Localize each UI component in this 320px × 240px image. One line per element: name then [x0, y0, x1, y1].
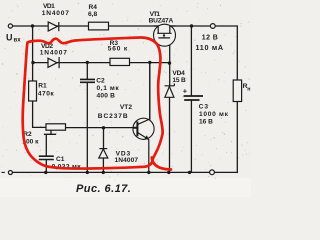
capacitor C3 polarized: [184, 96, 203, 100]
wire VT2 collector column: [149, 63, 151, 120]
wire gate lead and VD4 column: [169, 38, 171, 173]
svg-text:вх: вх: [14, 38, 22, 44]
diode VD2: [48, 57, 59, 68]
resistor R1: [29, 81, 37, 101]
node gate/VD4 junction: [168, 61, 171, 64]
svg-text:470к: 470к: [38, 90, 55, 97]
wire top rail from MOSFET to right corner, down to Rn: [170, 26, 238, 80]
svg-text:C3: C3: [199, 103, 209, 110]
wire second rail VD2/R3 line: [33, 62, 170, 64]
label VT1 BUZ47A: [149, 11, 174, 25]
label 12 V 110 mA: [196, 35, 224, 53]
svg-text:Рис. 6.17.: Рис. 6.17.: [76, 183, 131, 195]
ground terminal bottom right: [210, 170, 215, 175]
wire base line R2 to VT2: [66, 127, 134, 129]
wire C3 column: [190, 26, 192, 172]
svg-text:1N4007: 1N4007: [42, 10, 70, 17]
node emitter/ground: [147, 171, 150, 174]
svg-text:1N4007: 1N4007: [40, 50, 68, 57]
node base/VD3 junction: [102, 126, 105, 129]
label C1 0,033mk: [52, 156, 82, 170]
svg-text:400 В: 400 В: [97, 93, 116, 100]
svg-text:1N4007: 1N4007: [115, 157, 139, 164]
diode VD1: [48, 22, 59, 31]
load resistor Rn: [233, 80, 241, 102]
label VD2: [40, 43, 68, 56]
resistor R3: [110, 58, 130, 65]
label VD3: [115, 150, 139, 164]
wire C2 column: [86, 63, 88, 173]
svg-text:BC237B: BC237B: [98, 113, 129, 120]
output terminal +12V: [210, 24, 215, 29]
wire load lead Rn bottom to bottom rail: [236, 102, 238, 173]
node VD3/ground: [102, 171, 105, 174]
label Uvx: [6, 32, 21, 43]
svg-text:0,1 мк: 0,1 мк: [97, 85, 120, 92]
svg-text:н: н: [247, 86, 250, 92]
wire left rail from node A down to R1: [32, 26, 34, 81]
svg-text:16 В: 16 В: [199, 118, 213, 125]
label R4 6,8: [88, 4, 97, 18]
svg-text:12 В: 12 В: [202, 35, 218, 42]
svg-text:R1: R1: [38, 82, 47, 89]
zener VD4: [165, 84, 175, 98]
wire top rail from input to MOSFET: [13, 25, 159, 27]
svg-text:C2: C2: [96, 77, 105, 84]
MOSFET VT1: [154, 24, 176, 46]
svg-text:VT2: VT2: [120, 104, 132, 111]
svg-text:15 В: 15 В: [172, 77, 186, 84]
wire R2 wiper to C1 to ground: [45, 130, 56, 172]
ground terminal bottom left: [8, 171, 12, 175]
node C3/ground: [188, 171, 191, 174]
label VD1: [42, 3, 70, 17]
node collector junction: [148, 61, 151, 64]
label R2 100k: [22, 131, 39, 145]
svg-text:6,8: 6,8: [88, 11, 97, 18]
label plus C3: [183, 86, 188, 95]
input terminal Uvx: [8, 24, 12, 28]
svg-text:+: +: [183, 86, 188, 95]
capacitor C2: [80, 79, 95, 82]
node top rail / left rail junction: [31, 24, 34, 27]
node C1/ground: [44, 171, 47, 174]
svg-text:1000 мк: 1000 мк: [199, 111, 229, 118]
svg-text:C1: C1: [56, 156, 65, 163]
node VD4/ground: [167, 171, 170, 174]
caption Fig 6.17: [76, 183, 131, 195]
svg-text:110 мА: 110 мА: [196, 43, 224, 52]
resistor R2 trimmer: [46, 124, 66, 130]
label VT2 BC237B: [98, 104, 133, 120]
capacitor C1: [39, 156, 54, 159]
wire VD3 column: [102, 128, 104, 173]
node VD2 left: [31, 61, 34, 64]
svg-text:BUZ47A: BUZ47A: [149, 17, 174, 24]
svg-text:VD4: VD4: [172, 70, 185, 77]
svg-text:U: U: [6, 32, 13, 42]
node top rail / C3 junction: [190, 24, 193, 27]
diode VD3: [99, 149, 108, 158]
node C2/ground: [86, 171, 89, 174]
resistor R4: [89, 22, 109, 30]
wire left rail R1 bottom to R2 left: [33, 101, 46, 127]
red marker loop: [23, 37, 171, 169]
wire bottom ground rail: [13, 171, 238, 173]
svg-text:560 к: 560 к: [108, 45, 128, 52]
label minus dash: [2, 171, 5, 173]
node C2 top: [86, 61, 89, 64]
label Rn: [243, 83, 251, 92]
label VD4 15 V: [172, 70, 186, 84]
label R3 560k: [108, 40, 128, 53]
label C3 1000mk 16V: [199, 103, 229, 125]
label R1 470k: [38, 82, 55, 97]
label C2 0,1mk 400V: [96, 77, 119, 99]
transistor VT2: [133, 63, 154, 173]
